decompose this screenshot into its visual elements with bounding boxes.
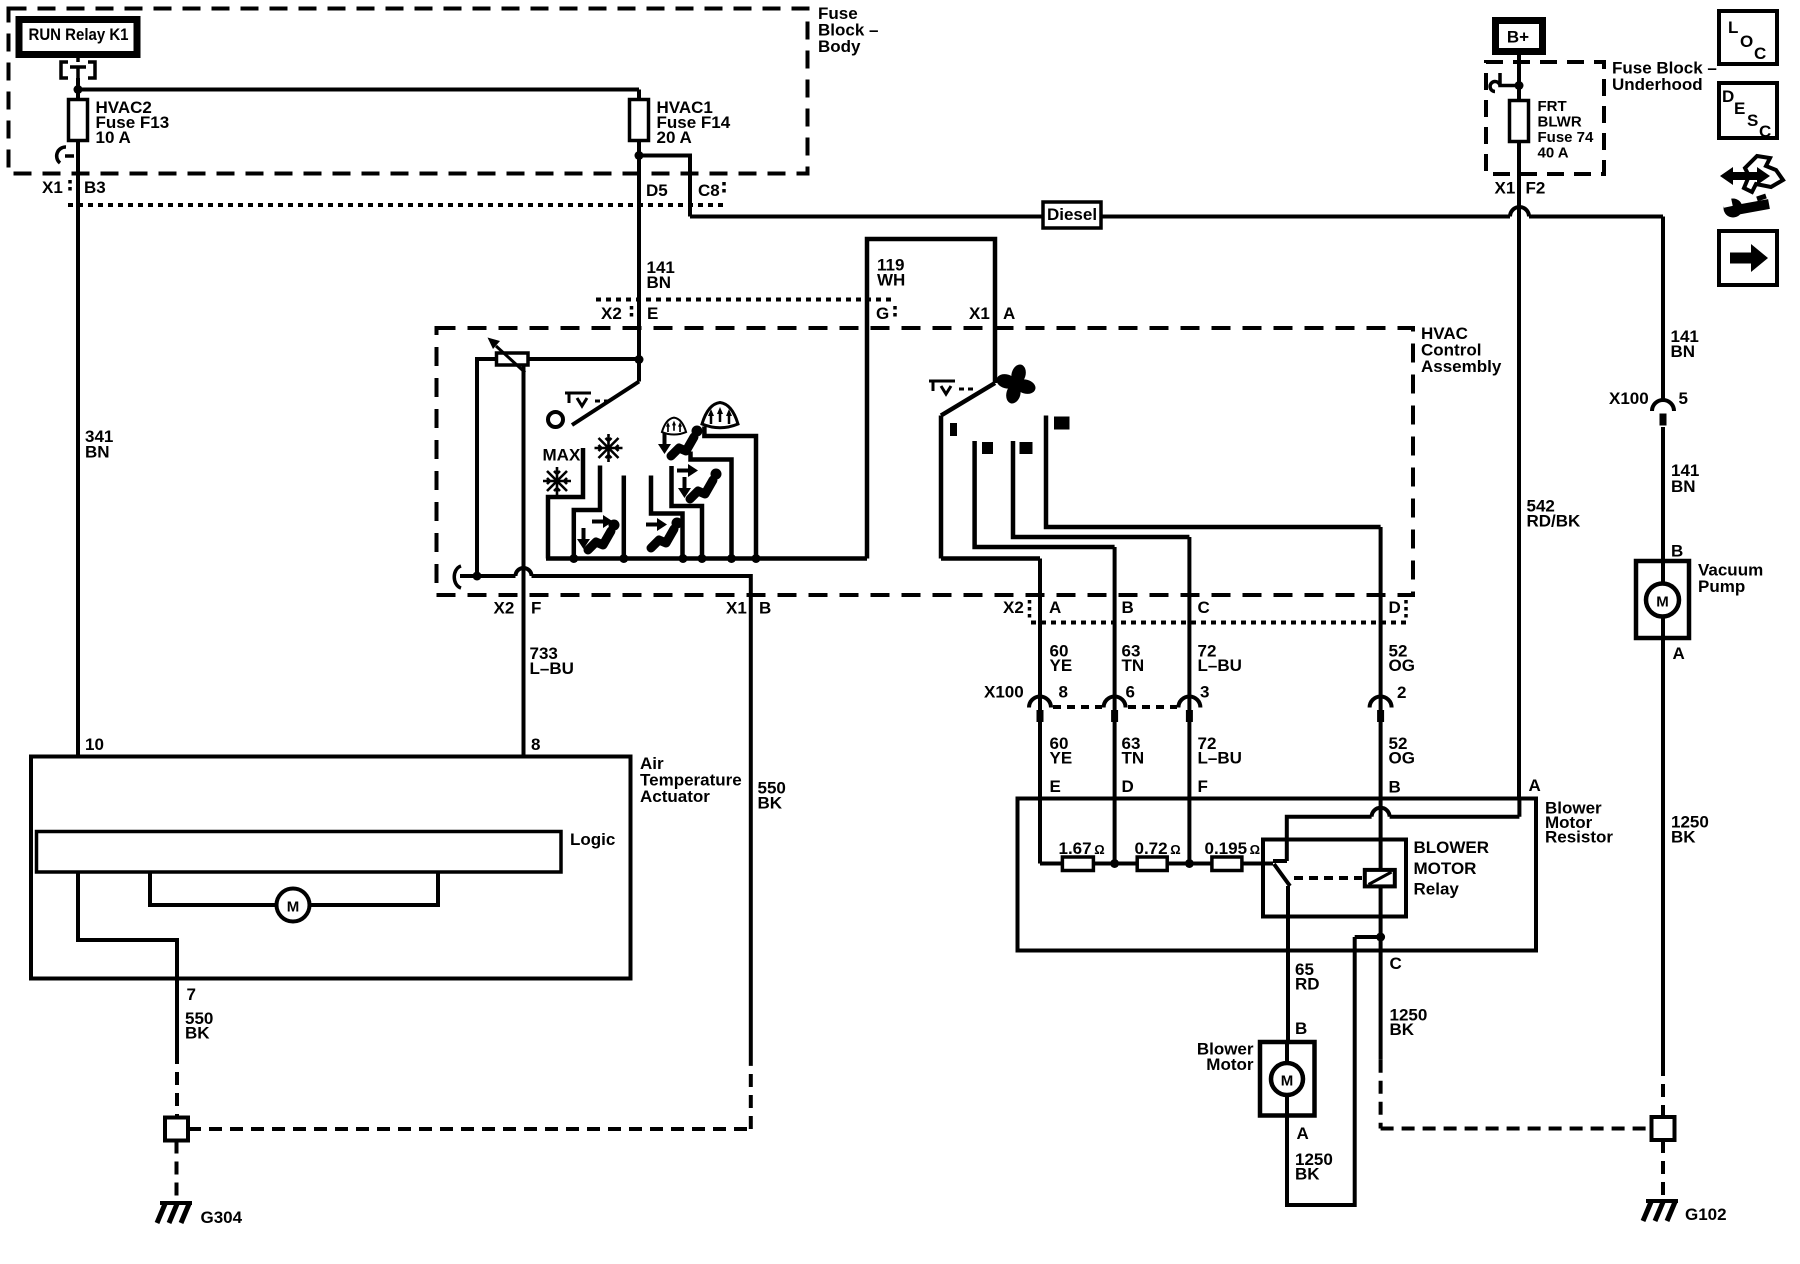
label 119 WH xyxy=(877,256,905,290)
svg-text:BLOWER: BLOWER xyxy=(1414,838,1490,857)
svg-text:M: M xyxy=(287,899,300,916)
svg-text:A: A xyxy=(1529,776,1541,795)
relay contact blade xyxy=(1273,861,1290,886)
mech link symbol fan switch xyxy=(929,381,973,394)
wire relay to HVAC1 fuse xyxy=(78,88,639,92)
dashed wire C to splice xyxy=(1381,1060,1652,1129)
resistor bus xyxy=(1040,862,1273,866)
junction node below fuse xyxy=(635,151,644,160)
ground G304 xyxy=(157,1203,243,1227)
dashed ground bus left xyxy=(188,1066,751,1129)
terminal labels E D F B A xyxy=(1050,776,1541,797)
icon snowflake A/C xyxy=(595,434,623,462)
icon person floor-panel mode xyxy=(577,515,620,550)
svg-text:RD: RD xyxy=(1295,975,1320,994)
svg-text:A: A xyxy=(1003,304,1015,323)
wire rheostat to switch common xyxy=(528,357,639,361)
wire 141 BN lower xyxy=(1661,427,1665,561)
labels X1 F2 xyxy=(1495,179,1546,198)
svg-text:F: F xyxy=(1198,777,1208,796)
wire 119 WH loop to fan switch xyxy=(867,239,995,559)
svg-text:Actuator: Actuator xyxy=(640,787,710,806)
label 141 BN upper xyxy=(1671,327,1699,361)
svg-text:10 A: 10 A xyxy=(96,128,131,147)
svg-text:20 A: 20 A xyxy=(657,128,692,147)
connector dotted line xyxy=(68,203,726,207)
svg-text:B: B xyxy=(759,599,771,618)
svg-text:Assembly: Assembly xyxy=(1421,357,1502,376)
svg-text:A: A xyxy=(1297,1124,1309,1143)
relay coil xyxy=(1365,870,1395,887)
splice right xyxy=(1652,1117,1675,1140)
relay contact symbol xyxy=(61,58,95,80)
svg-text:8: 8 xyxy=(531,735,540,754)
svg-text:L–BU: L–BU xyxy=(1198,749,1242,768)
blower motor box xyxy=(1260,1042,1315,1116)
svg-text:MAX: MAX xyxy=(543,446,581,465)
wire down from contact xyxy=(76,78,80,100)
connector labels X2 E G X1 A xyxy=(601,304,1015,323)
inline connector X100 pin 5 xyxy=(1609,389,1688,426)
svg-text:L–BU: L–BU xyxy=(530,659,574,678)
svg-text:Pump: Pump xyxy=(1698,577,1745,596)
labels 60 YE upper xyxy=(1050,642,1073,676)
svg-text:C: C xyxy=(1198,598,1210,617)
svg-text:Resistor: Resistor xyxy=(1545,828,1613,847)
svg-text:D: D xyxy=(1122,777,1134,796)
fan switch position wires xyxy=(941,556,1040,561)
motor internal wires xyxy=(1285,1042,1289,1116)
fuse HVAC1 F14 20A xyxy=(630,90,731,148)
wire branch to C8 / Diesel xyxy=(639,156,690,217)
relay common wire 65 RD xyxy=(1286,886,1290,1042)
svg-text:BK: BK xyxy=(1295,1165,1320,1184)
wire C 72 L-BU xyxy=(1187,537,1191,864)
svg-text:RUN Relay K1: RUN Relay K1 xyxy=(29,25,129,44)
icon person mix mode xyxy=(658,426,703,457)
svg-text:D5: D5 xyxy=(646,181,668,200)
tag Diesel xyxy=(1043,202,1101,228)
dashed ground wire right xyxy=(1661,1063,1665,1117)
svg-text:WH: WH xyxy=(877,271,905,290)
svg-text:C: C xyxy=(1754,44,1766,63)
svg-text:1.67 Ω: 1.67 Ω xyxy=(1059,839,1105,858)
icon box arrow right xyxy=(1719,231,1777,285)
fuse block - underhood dashed outline xyxy=(1486,62,1604,174)
svg-text:6: 6 xyxy=(1126,683,1135,702)
wire 1250 BK right xyxy=(1661,638,1665,1063)
wire A 60 YE xyxy=(1038,559,1042,864)
svg-text:G102: G102 xyxy=(1685,1205,1727,1224)
labels X2 F connector xyxy=(494,599,542,618)
svg-text:Diesel: Diesel xyxy=(1047,205,1097,224)
label 141 BN lower xyxy=(1671,461,1699,496)
svg-text:B: B xyxy=(1122,598,1134,617)
air temperature actuator box xyxy=(31,757,631,979)
motor M actuator xyxy=(277,889,310,922)
junction node E xyxy=(635,355,644,364)
svg-text:X1: X1 xyxy=(1495,179,1516,198)
label 1250 BK right xyxy=(1671,813,1709,847)
svg-text:OG: OG xyxy=(1389,656,1415,675)
labels 72 L-BU upper xyxy=(1198,642,1242,676)
svg-text:BLWR: BLWR xyxy=(1538,114,1582,131)
svg-text:C: C xyxy=(1759,122,1771,141)
actuator motor loop xyxy=(150,872,438,905)
svg-text:8: 8 xyxy=(1059,683,1068,702)
svg-text:X2: X2 xyxy=(494,599,515,618)
icon defrost small xyxy=(662,418,686,435)
svg-text:10: 10 xyxy=(85,735,104,754)
labels 63 TN upper xyxy=(1122,642,1145,676)
terminal tap symbol xyxy=(1490,73,1523,92)
resistor 0.195 ohm xyxy=(1205,839,1261,871)
icon person floor mode xyxy=(646,518,683,549)
icon person panel mode xyxy=(677,464,722,499)
dashed wire splice to G102 xyxy=(1661,1140,1665,1198)
rheostat (temperature) xyxy=(488,338,529,373)
label 1250 BK under C xyxy=(1390,1006,1428,1040)
label 341 BN xyxy=(85,427,113,462)
svg-text:G: G xyxy=(876,304,889,323)
svg-text:L: L xyxy=(1728,18,1738,37)
svg-text:A: A xyxy=(1049,598,1061,617)
svg-text:B3: B3 xyxy=(84,178,106,197)
svg-text:Fuse 74: Fuse 74 xyxy=(1538,129,1595,146)
label Air Temperature Actuator xyxy=(640,754,742,806)
wire 141 BN right riser xyxy=(1661,217,1665,401)
svg-text:0.72 Ω: 0.72 Ω xyxy=(1135,839,1181,858)
fan switch contact squares xyxy=(950,417,1070,455)
svg-text:A: A xyxy=(1673,644,1685,663)
labels 63 TN lower xyxy=(1122,734,1145,768)
label 542 RD/BK xyxy=(1527,497,1582,531)
svg-text:OG: OG xyxy=(1389,749,1415,768)
motor return stub xyxy=(1355,935,1381,939)
labels X1 B connector xyxy=(726,599,771,618)
fuse block - body dashed outline xyxy=(9,9,808,174)
svg-text:C8: C8 xyxy=(698,181,720,200)
blower motor relay box xyxy=(1263,840,1406,917)
svg-text:D: D xyxy=(1389,598,1401,617)
svg-text:G304: G304 xyxy=(201,1208,243,1227)
icon box DESC xyxy=(1719,83,1777,141)
mode switch contact stubs xyxy=(548,448,583,559)
svg-text:B: B xyxy=(1295,1019,1307,1038)
bus junction nodes xyxy=(1110,859,1194,868)
label Fuse Block - Underhood xyxy=(1612,59,1717,95)
label Blower Motor Resistor xyxy=(1545,799,1613,847)
mode switch bus xyxy=(546,556,867,561)
svg-text:7: 7 xyxy=(187,985,196,1004)
svg-text:TN: TN xyxy=(1122,656,1145,675)
label 1250 BK motor xyxy=(1295,1150,1333,1184)
svg-text:X1: X1 xyxy=(42,178,63,197)
mech link symbol mode switch xyxy=(565,393,609,406)
bus junction nodes xyxy=(569,554,760,563)
dashed wire to splice xyxy=(175,1051,179,1117)
svg-text:FRT: FRT xyxy=(1538,98,1567,115)
svg-text:Logic: Logic xyxy=(570,830,615,849)
svg-text:Relay: Relay xyxy=(1414,880,1460,899)
wire D 52 OG xyxy=(1379,527,1383,870)
svg-text:BN: BN xyxy=(647,273,672,292)
svg-text:O: O xyxy=(1740,32,1753,51)
svg-text:5: 5 xyxy=(1679,389,1688,408)
dashed wire splice to G304 xyxy=(175,1141,179,1202)
svg-text:X100: X100 xyxy=(984,683,1024,702)
svg-text:E: E xyxy=(647,304,658,323)
logic module xyxy=(37,830,616,872)
label Fuse Block - Body xyxy=(818,4,878,56)
svg-text:BN: BN xyxy=(1671,342,1696,361)
hvac control assembly dashed outline xyxy=(437,328,1414,595)
svg-text:40 A: 40 A xyxy=(1538,145,1569,162)
svg-text:B: B xyxy=(1671,542,1683,561)
blower motor resistor box xyxy=(1018,799,1537,951)
svg-text:C: C xyxy=(1390,954,1402,973)
vacuum pump xyxy=(1636,561,1763,639)
hook symbol internal xyxy=(454,566,461,588)
ground G102 xyxy=(1643,1201,1727,1224)
svg-text:Underhood: Underhood xyxy=(1612,75,1703,94)
fan switch wiper xyxy=(941,383,995,559)
svg-text:BK: BK xyxy=(1671,828,1696,847)
svg-text:0.195 Ω: 0.195 Ω xyxy=(1205,839,1261,858)
fuse FRT BLWR 74 40A xyxy=(1510,98,1595,162)
icon fan xyxy=(995,363,1037,405)
connector dotted line A-D xyxy=(1031,621,1406,625)
coil ground wire to C xyxy=(1379,886,1383,1059)
svg-text:YE: YE xyxy=(1050,749,1073,768)
icon box LOC xyxy=(1719,11,1777,64)
svg-text:E: E xyxy=(1050,777,1061,796)
labels 72 L-BU lower xyxy=(1198,734,1242,768)
icon defrost large xyxy=(702,403,738,428)
svg-text:Motor: Motor xyxy=(1206,1055,1254,1074)
svg-text:BN: BN xyxy=(85,443,110,462)
connector X2 A B C D labels xyxy=(1003,598,1406,620)
svg-text:M: M xyxy=(1281,1073,1294,1090)
svg-text:B+: B+ xyxy=(1507,28,1529,47)
wire rheostat left leg xyxy=(477,359,497,576)
svg-text:BK: BK xyxy=(758,794,783,813)
svg-text:X100: X100 xyxy=(1609,389,1649,408)
icon snowflake max A/C xyxy=(543,467,571,495)
label 733 L-BU xyxy=(530,644,574,678)
wire 341 BN left (down to actuator pin 10) xyxy=(76,141,80,757)
labels 60 YE lower xyxy=(1050,734,1073,768)
wire Diesel feed with hop xyxy=(690,207,1663,217)
wire 141 BN from fuse F14 down xyxy=(637,141,641,382)
connector X1 B3 labels xyxy=(42,178,106,197)
connector X2 E / G dotted line xyxy=(596,298,896,302)
svg-text:MOTOR: MOTOR xyxy=(1414,859,1477,878)
svg-text:BK: BK xyxy=(185,1024,210,1043)
label 550 BK xyxy=(185,1009,213,1043)
svg-text:X1: X1 xyxy=(969,304,990,323)
internal bus to X1/B with hop xyxy=(460,568,751,1066)
svg-text:F: F xyxy=(531,599,541,618)
svg-text:Body: Body xyxy=(818,37,861,56)
svg-text:3: 3 xyxy=(1200,683,1209,702)
svg-text:X2: X2 xyxy=(1003,598,1024,617)
junction node xyxy=(74,85,83,94)
svg-text:X2: X2 xyxy=(601,304,622,323)
label 141 BN xyxy=(647,258,675,292)
svg-text:E: E xyxy=(1734,99,1745,118)
svg-text:L–BU: L–BU xyxy=(1198,656,1242,675)
svg-text:S: S xyxy=(1747,111,1758,130)
motor ground return wire xyxy=(1287,937,1355,1205)
fuse HVAC2 F13 10A xyxy=(69,98,170,147)
internal feed wire from terminal A with hop xyxy=(1287,799,1520,862)
inline connector symbols X100 xyxy=(1029,697,1392,723)
resistor 0.72 ohm xyxy=(1135,839,1181,871)
relay RUN Relay K1 xyxy=(19,20,137,55)
svg-text:X1: X1 xyxy=(726,599,747,618)
resistor 1.67 ohm xyxy=(1059,839,1105,871)
labels 52 OG lower xyxy=(1389,734,1415,768)
label 65 RD xyxy=(1295,960,1320,994)
svg-text:F2: F2 xyxy=(1526,179,1546,198)
junction node coil/motor return xyxy=(1376,933,1385,942)
label BLOWER MOTOR Relay xyxy=(1414,838,1490,899)
label Blower Motor xyxy=(1197,1040,1254,1075)
relay coil link dashed xyxy=(1294,876,1362,880)
wire B 63 TN xyxy=(1113,547,1117,864)
svg-text:2: 2 xyxy=(1397,683,1406,702)
splice left xyxy=(165,1118,188,1141)
junction node rheostat leg xyxy=(473,572,482,581)
mode switch wiper xyxy=(548,382,639,428)
wire 733 L-BU from rheostat down xyxy=(522,365,526,757)
svg-text:M: M xyxy=(1656,594,1669,611)
breaker hook symbol xyxy=(57,147,74,163)
svg-text:D: D xyxy=(1722,87,1734,106)
dashed link between connector symbols xyxy=(1053,705,1177,709)
labels D5 C8 xyxy=(646,181,724,200)
labels 52 OG upper xyxy=(1389,642,1415,676)
label 550 BK right branch xyxy=(758,779,786,813)
battery feed B+ tag xyxy=(1496,21,1543,52)
label HVAC Control Assembly xyxy=(1421,324,1502,376)
wire 550 BK from pin 7 xyxy=(175,979,179,1052)
wire 542 RD/BK down right side xyxy=(1517,142,1521,799)
svg-text:YE: YE xyxy=(1050,656,1073,675)
X100 pin numbers xyxy=(1059,683,1407,703)
svg-text:BN: BN xyxy=(1671,477,1696,496)
svg-text:B: B xyxy=(1389,778,1401,797)
svg-text:RD/BK: RD/BK xyxy=(1527,512,1582,531)
wire from B+ down xyxy=(1517,55,1521,101)
svg-text:TN: TN xyxy=(1122,749,1145,768)
icon navigate arrows with wrench xyxy=(1720,156,1783,218)
svg-text:BK: BK xyxy=(1390,1020,1415,1039)
pin 7 internal wire xyxy=(78,872,177,979)
